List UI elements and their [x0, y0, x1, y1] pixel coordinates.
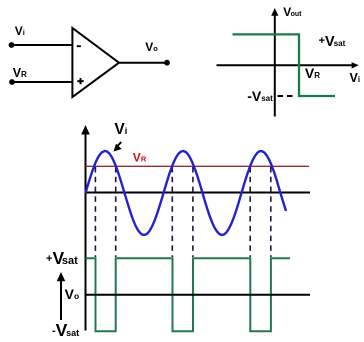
- svg-text:Vo: Vo: [65, 286, 80, 302]
- dashed link to -Vsat level: [278, 95, 295, 97]
- input sine wave Vi (blue): [86, 151, 287, 235]
- svg-text:+Vsat: +Vsat: [319, 34, 346, 50]
- transfer curve horizontal axis: [217, 64, 353, 66]
- dashed crossing line 5: [249, 167, 251, 257]
- op-amp U1: [72, 28, 119, 97]
- Vo axis arrow: [60, 280, 62, 321]
- wire VR input: [12, 81, 72, 83]
- waveform sine horizontal axis: [86, 192, 311, 194]
- arrow pointer from Vi to sine peak: [117, 142, 121, 147]
- op-amp inverting input marker (-): [77, 45, 81, 47]
- svg-text:-Vsat: -Vsat: [52, 320, 79, 340]
- svg-text:+Vsat: +Vsat: [46, 248, 78, 268]
- VR reference line (red): [86, 165, 310, 167]
- svg-text:VR: VR: [13, 66, 27, 80]
- node VR terminal: [9, 79, 15, 85]
- svg-text:Vo: Vo: [145, 40, 158, 54]
- dashed crossing line 2: [115, 167, 117, 257]
- svg-text:Vi: Vi: [15, 24, 25, 38]
- svg-text:Vi: Vi: [350, 71, 361, 85]
- node Vi terminal: [9, 42, 15, 48]
- dashed crossing line 3: [171, 167, 173, 257]
- square wave output Vo (green): [86, 258, 291, 331]
- waveform output horizontal axis: [86, 294, 311, 296]
- svg-text:Vi: Vi: [114, 121, 127, 138]
- dashed crossing line 6: [270, 167, 272, 257]
- dashed crossing line 1: [94, 167, 96, 257]
- svg-text:Vout: Vout: [283, 5, 302, 19]
- wire Vi input: [12, 44, 73, 46]
- wire Vo output: [119, 62, 167, 64]
- transfer curve vertical axis: [274, 14, 276, 117]
- transfer characteristic curve (green): [233, 34, 336, 96]
- svg-text:-Vsat: -Vsat: [247, 88, 273, 104]
- waveform vertical axis: [85, 132, 87, 331]
- svg-text:VR: VR: [305, 65, 320, 81]
- dashed crossing line 4: [192, 167, 194, 257]
- node Vo terminal: [164, 60, 170, 66]
- op-amp non-inverting input marker (+): [77, 80, 83, 82]
- svg-text:VR: VR: [133, 151, 147, 165]
